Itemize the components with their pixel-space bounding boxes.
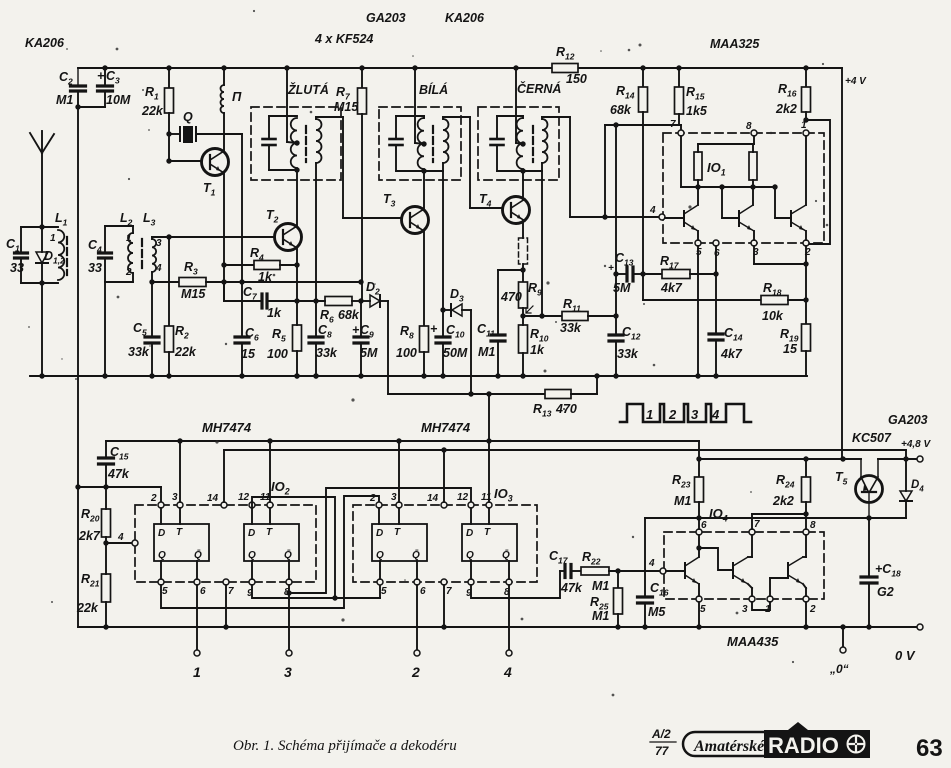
capacitor C3 electrolytic [102, 65, 107, 70]
svg-text:2: 2 [411, 664, 420, 680]
svg-text:MAA325: MAA325 [710, 37, 760, 51]
wire pin5 Q1 cross-link [161, 496, 379, 608]
pin 1 IO4 [767, 596, 773, 602]
capacitor C18 electrolytic [868, 518, 870, 576]
inductor ZLUTA primary [296, 116, 298, 170]
resistor IO1 internal right [749, 152, 757, 180]
transistor T5 [856, 476, 883, 503]
transformer core BILA [432, 126, 434, 162]
terminal 0 [840, 647, 846, 653]
svg-text:5: 5 [696, 247, 702, 258]
svg-text:6: 6 [701, 520, 707, 531]
svg-text:C5: C5 [133, 321, 147, 338]
wire supply line y459 left [699, 458, 861, 460]
svg-text:D4: D4 [911, 479, 924, 494]
wire output 3 [288, 585, 290, 650]
dashed box CERNA [478, 107, 559, 180]
wire T2 emitter x297 [296, 248, 298, 301]
svg-text:L1: L1 [55, 211, 68, 228]
svg-text:+4,8 V: +4,8 V [901, 439, 932, 450]
svg-text:2k2: 2k2 [772, 494, 794, 508]
svg-text:D3: D3 [450, 287, 464, 304]
wire IO4 internals [698, 535, 700, 548]
svg-text:5M: 5M [360, 346, 378, 360]
capacitor C10 electrolytic [442, 310, 444, 336]
pin 2 IO1 [803, 240, 809, 246]
pin 2 IO4 [803, 596, 809, 602]
svg-text:KC507: KC507 [852, 431, 892, 445]
svg-text:R15: R15 [686, 85, 705, 102]
svg-text:R20: R20 [81, 507, 100, 524]
flip-flop FF1 [154, 524, 209, 561]
resistor R11 [523, 315, 562, 317]
svg-text:C7: C7 [243, 285, 258, 302]
svg-text:Q: Q [466, 550, 474, 561]
resistor R2 [165, 326, 174, 352]
wire pin3-pin1 link [752, 602, 770, 610]
capacitor C2 [77, 68, 79, 85]
svg-text:D: D [466, 528, 473, 539]
pin 4 IO2 [132, 540, 138, 546]
wire T4 collector [522, 171, 524, 199]
pin 6 IO1 [713, 240, 719, 246]
svg-text:R23: R23 [672, 473, 691, 490]
svg-text:R1: R1 [145, 85, 159, 102]
wire IO1 pin6 down [715, 246, 717, 333]
svg-text:15: 15 [241, 347, 256, 361]
svg-text:2k7: 2k7 [78, 529, 101, 543]
diode D1,2 [39, 224, 44, 229]
wire C11 branch [498, 269, 523, 271]
capacitor C8 [315, 301, 317, 336]
svg-text:+: + [430, 322, 438, 336]
diode D3 [440, 307, 445, 312]
pin 9 IO2 [249, 579, 255, 585]
svg-text:63: 63 [916, 735, 943, 762]
wire ZLUTA tank top [269, 115, 297, 117]
svg-text:0 V: 0 V [895, 648, 916, 663]
svg-text:12: 12 [457, 492, 469, 503]
dashed box BILA [379, 107, 461, 180]
wire BILA secondary top to T4 base [443, 116, 470, 118]
pin 5 IO2 [158, 579, 164, 585]
pin 4 IO4 [660, 568, 666, 574]
svg-text:3: 3 [156, 238, 162, 249]
svg-text:10M: 10M [106, 93, 131, 107]
svg-text:6: 6 [714, 248, 720, 259]
svg-text:T1: T1 [203, 181, 216, 198]
capacitor C1 [20, 227, 22, 252]
pin 2 IO2 [158, 502, 164, 508]
svg-text:150: 150 [566, 72, 587, 86]
pin 4 IO1 [659, 214, 665, 220]
svg-text:4: 4 [711, 407, 720, 422]
IC IO2 dashed box [135, 505, 316, 582]
svg-text:C3: C3 [106, 69, 120, 86]
svg-text:22k: 22k [76, 601, 99, 615]
pin 7 IO1 [678, 130, 684, 136]
svg-text:R2: R2 [175, 324, 189, 341]
wire pin7 IO2 ground [225, 585, 227, 627]
svg-text:IO1: IO1 [707, 160, 726, 178]
svg-text:4 x KF524: 4 x KF524 [314, 32, 373, 46]
resistor R6 [325, 297, 352, 306]
wire pin7 IO3 ground [443, 585, 445, 627]
wire C2-C3 join [78, 106, 105, 108]
svg-text:R9: R9 [528, 281, 542, 298]
svg-text:4: 4 [117, 532, 124, 543]
svg-text:R3: R3 [184, 260, 198, 277]
svg-text:2: 2 [369, 493, 376, 504]
svg-text:MH7474: MH7474 [202, 420, 252, 435]
pin 3 IO1 [751, 240, 757, 246]
pin 11 IO2 [267, 502, 273, 508]
svg-text:MAA435: MAA435 [727, 634, 779, 649]
wire CERNA secondary bottom [541, 163, 543, 316]
svg-text:L2: L2 [120, 211, 133, 228]
resistor R3 [152, 281, 179, 283]
pin 2 IO3 [376, 502, 382, 508]
wire D3 down [470, 310, 472, 394]
svg-text:3: 3 [391, 492, 397, 503]
svg-text:1k: 1k [267, 306, 282, 320]
inductor Pi choke [221, 65, 226, 70]
pin 14 IO2 [221, 502, 227, 508]
IC IO4 dashed box [664, 532, 824, 599]
pin 1 IO1 [803, 130, 809, 136]
wire T3 collector [423, 171, 425, 209]
wire pin2 ground [805, 602, 807, 627]
transistor IO4 Qc [787, 563, 789, 578]
transformer core CERNA [532, 126, 534, 162]
wire output 2 [416, 585, 418, 650]
svg-text:1: 1 [646, 407, 653, 422]
wire R24 to pin7 [752, 513, 806, 515]
wire feed BILA [412, 65, 417, 70]
wire L1 tank top [21, 226, 58, 228]
resistor R10 [519, 325, 528, 353]
pin 6 IO3 [414, 579, 420, 585]
transistor IO4 Qa [684, 563, 686, 578]
terminal output 2 [414, 650, 420, 656]
wire C4 to ground [104, 282, 106, 376]
svg-text:D: D [158, 528, 165, 539]
wire pin12-pin9-pin5' link [252, 497, 335, 598]
svg-text:C14: C14 [724, 326, 743, 343]
svg-text:R17: R17 [660, 254, 680, 271]
resistor R7 [359, 65, 364, 70]
wire ZLUTA secondary bottom [315, 163, 317, 301]
wire CERNA tank bottom [497, 170, 542, 172]
wire pin4 IO2 [106, 542, 131, 544]
resistor R19 [805, 300, 807, 324]
svg-text:2: 2 [668, 407, 677, 422]
svg-text:33k: 33k [560, 321, 582, 335]
svg-text:5: 5 [700, 604, 706, 615]
capacitor C4 [104, 226, 106, 252]
svg-text:470: 470 [500, 290, 522, 304]
pin 7 IO3 [441, 579, 447, 585]
IC IO3 dashed box [353, 505, 537, 582]
wire RF ground rail y376 [30, 375, 807, 377]
svg-text:47k: 47k [107, 467, 130, 481]
capacitor ZLUTA tank [268, 116, 270, 138]
svg-text:14: 14 [427, 493, 439, 504]
svg-text:D: D [376, 528, 383, 539]
svg-text:IO3: IO3 [494, 486, 513, 504]
svg-text:4: 4 [503, 664, 512, 680]
wire right +4V drop x842 [841, 68, 843, 459]
svg-text:+: + [608, 263, 614, 274]
svg-text:47k: 47k [560, 581, 583, 595]
resistor R22 [581, 567, 609, 575]
svg-text:1: 1 [50, 233, 56, 244]
svg-text:15: 15 [783, 342, 798, 356]
svg-text:M5: M5 [648, 605, 666, 619]
resistor R17 [643, 273, 662, 275]
svg-text:T5: T5 [835, 470, 848, 487]
resistor IO1 internal left [694, 152, 702, 180]
capacitor C5 [151, 282, 153, 336]
terminal 0V [917, 624, 923, 630]
svg-text:GA203: GA203 [366, 11, 406, 25]
svg-text:Q: Q [158, 550, 166, 561]
svg-text:6: 6 [200, 586, 206, 597]
wire FF3 pins [378, 508, 380, 524]
wire output 4 [508, 585, 510, 650]
wire 0 terminal [840, 624, 845, 629]
svg-text:7: 7 [670, 119, 676, 130]
svg-text:4: 4 [155, 263, 162, 274]
svg-text:C16: C16 [650, 581, 669, 598]
svg-text:50M: 50M [443, 346, 468, 360]
svg-text:T3: T3 [383, 192, 396, 209]
pin 12 IO3 [468, 502, 474, 508]
svg-text:T: T [394, 527, 401, 538]
resistor R12 on rail [552, 64, 578, 73]
pin 8 IO1 [751, 130, 757, 136]
svg-text:5: 5 [162, 586, 168, 597]
wire feed CERNA [513, 65, 518, 70]
flip-flop FF3 [372, 524, 427, 561]
pin 6 IO4 [696, 529, 702, 535]
inductor BILA primary [418, 118, 424, 169]
wire L1 tank bottom [21, 282, 58, 284]
svg-text:5: 5 [381, 586, 387, 597]
resistor R21 [102, 574, 111, 602]
wire pin5 ground [698, 602, 700, 627]
svg-text:68k: 68k [338, 308, 360, 322]
wire T1 collector [223, 113, 225, 151]
svg-text:1: 1 [801, 120, 807, 131]
inductor L3 [152, 239, 156, 272]
pin 14 IO3 [441, 502, 447, 508]
resistor R15 [676, 65, 681, 70]
wire T1 emitter down x224 [223, 173, 225, 301]
svg-text:1k: 1k [530, 343, 545, 357]
transistor IO4 Qb [732, 563, 734, 578]
diode D2 [370, 295, 380, 307]
svg-text:4k7: 4k7 [720, 347, 743, 361]
svg-text:+4 V: +4 V [845, 76, 867, 87]
pin 8 IO4 [803, 529, 809, 535]
capacitor C7 [223, 282, 225, 301]
antenna [41, 153, 43, 227]
svg-text:KA206: KA206 [25, 36, 65, 50]
wire IO1 pin7 internal [680, 136, 682, 187]
wire T2 collector x297 [296, 170, 298, 226]
transistor IO1 Q3 internal [774, 187, 776, 218]
svg-text:8: 8 [810, 520, 816, 531]
svg-text:3: 3 [742, 604, 748, 615]
svg-text:Q̄: Q̄ [284, 549, 292, 561]
svg-text:7: 7 [446, 586, 452, 597]
wire IO1 pin5 to ground [697, 246, 699, 376]
inductor L1 [57, 227, 59, 283]
pin 3 IO2 [177, 502, 183, 508]
svg-text:Q̄: Q̄ [412, 549, 420, 561]
svg-text:2: 2 [150, 493, 157, 504]
svg-text:3: 3 [284, 664, 292, 680]
svg-text:ŽLUTÁ: ŽLUTÁ [287, 82, 329, 97]
svg-text:R22: R22 [582, 550, 601, 567]
svg-text:2: 2 [125, 267, 132, 278]
svg-text:M1: M1 [478, 345, 495, 359]
wire bias line y282 [206, 281, 361, 283]
svg-text:KA206: KA206 [445, 11, 485, 25]
svg-text:7: 7 [228, 586, 234, 597]
svg-text:+: + [352, 323, 360, 337]
wire IO1 node A-B [698, 186, 775, 188]
resistor R5 [293, 325, 302, 351]
svg-text:Π: Π [232, 89, 242, 104]
resistor R18 [761, 296, 788, 305]
resistor R13 [545, 390, 571, 399]
svg-text:R13: R13 [533, 402, 552, 419]
svg-text:M15: M15 [181, 287, 206, 301]
svg-text:1k: 1k [258, 270, 273, 284]
wire supply line y459 right [878, 458, 917, 460]
transformer core L2-L3 [141, 239, 143, 269]
svg-text:M1: M1 [592, 609, 609, 623]
pin 5 IO1 [695, 240, 701, 246]
svg-text:C11: C11 [477, 322, 495, 339]
wire 0V ground rail y627 [78, 626, 917, 628]
svg-text:C13: C13 [615, 251, 634, 268]
capacitor C6 [241, 282, 243, 336]
transistor IO1 Q1 internal [683, 211, 685, 226]
svg-text:R8: R8 [400, 324, 414, 341]
svg-text:IO4: IO4 [709, 506, 728, 524]
wire ZLUTA tank bottom [269, 169, 297, 171]
wire R2 top [168, 237, 170, 326]
wire L2 tank top [105, 225, 133, 227]
wire output 1 [196, 585, 198, 650]
diode D4 [905, 450, 907, 459]
pin 5 IO3 [377, 579, 383, 585]
svg-text:R21: R21 [81, 572, 100, 589]
wire crystal to C6 branch x242 [241, 134, 243, 282]
svg-text:C17: C17 [549, 549, 569, 566]
flip-flop FF4 [462, 524, 517, 561]
logo Amaterske RADIO [683, 732, 811, 756]
svg-text:T: T [266, 527, 273, 538]
svg-text:C1: C1 [6, 237, 20, 254]
wire ZLUTA secondary top to T3 base [316, 116, 343, 118]
pin 8 IO2 [286, 579, 292, 585]
svg-text:77: 77 [655, 744, 670, 758]
svg-text:22k: 22k [174, 345, 197, 359]
capacitor BILA tank [395, 116, 397, 138]
svg-text:R12: R12 [556, 45, 575, 62]
resistor R1 [166, 65, 171, 70]
svg-text:22k: 22k [141, 104, 164, 118]
resistor R25 [617, 571, 619, 588]
svg-text:8: 8 [746, 121, 752, 132]
wire BILA tank bottom [396, 170, 443, 172]
resistor dashed (optional) in T4 emitter [519, 238, 528, 264]
svg-text:1k5: 1k5 [686, 104, 708, 118]
wire L3 pin3 to T2 base [151, 237, 153, 239]
pin 3 IO3 [396, 502, 402, 508]
wire +4V top rail y68 [78, 67, 552, 69]
svg-text:470: 470 [555, 402, 577, 416]
resistor R8 [420, 326, 429, 352]
wire pin8 Q2bar to pin12 IO3 [289, 488, 471, 593]
wire L3 pin4 [151, 272, 153, 282]
wire R16 feedback loop to pin2 [806, 120, 830, 244]
wire T3 emitter to R8 [423, 231, 425, 326]
capacitor C15 [105, 441, 107, 457]
svg-text:+C18: +C18 [875, 562, 901, 579]
noise speckles [310, 111, 313, 114]
svg-text:+: + [97, 69, 105, 83]
svg-text:C6: C6 [245, 326, 259, 343]
transistor T3 [402, 207, 429, 234]
capacitor CERNA tank [496, 116, 498, 138]
wire IO1 pin8 internal [753, 136, 755, 144]
wire D2 down to feedback line [387, 301, 389, 394]
svg-text:33k: 33k [316, 346, 338, 360]
capacitor C17 [560, 570, 564, 572]
svg-text:M1: M1 [56, 93, 73, 107]
pin 9 IO3 [468, 579, 474, 585]
svg-text:1: 1 [126, 233, 132, 244]
svg-text:ČERNÁ: ČERNÁ [517, 81, 561, 96]
svg-text:RADIO: RADIO [768, 733, 839, 758]
flip-flop FF2 [244, 524, 299, 561]
svg-text:MH7474: MH7474 [421, 420, 471, 435]
wire clock rail1 y441 [106, 440, 699, 442]
svg-text:R5: R5 [272, 327, 286, 344]
wire T4 emitter chain [522, 221, 524, 238]
resistor R9 [519, 282, 528, 308]
wire L1 to ground rail [41, 283, 43, 376]
wire R1 to T1 base [168, 134, 170, 161]
transformer core ZLUTA [305, 126, 307, 162]
svg-text:C4: C4 [88, 238, 102, 255]
wire FF4 pins [470, 508, 472, 524]
pin 7 IO4 [749, 529, 755, 535]
transistor T4 [503, 197, 530, 224]
pin 8 IO3 [506, 579, 512, 585]
wire FF2 pins [251, 508, 253, 524]
capacitor C13 electrolytic [613, 271, 618, 276]
pin 6 IO2 [194, 579, 200, 585]
capacitor C9 electrolytic [360, 301, 362, 336]
resistor R4 [224, 264, 254, 266]
svg-text:Q: Q [248, 550, 256, 561]
